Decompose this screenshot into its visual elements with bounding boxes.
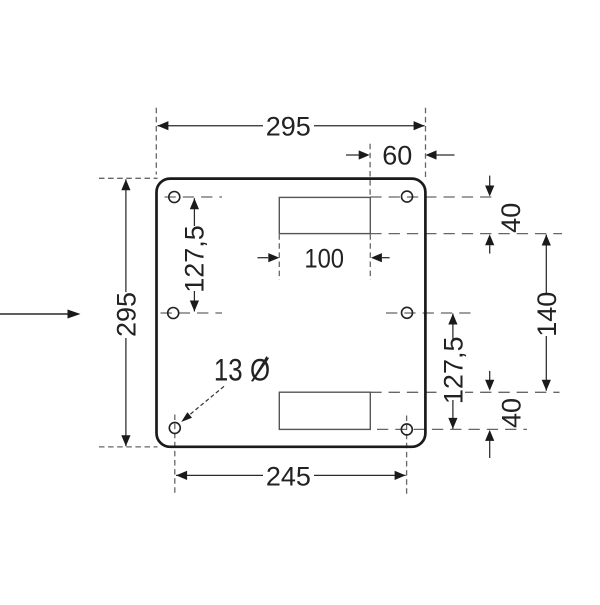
svg-text:40: 40 (496, 203, 526, 233)
svg-text:13: 13 (214, 353, 243, 388)
svg-text:60: 60 (382, 141, 412, 171)
svg-text:127,5: 127,5 (439, 337, 469, 405)
svg-text:295: 295 (266, 111, 311, 141)
svg-text:140: 140 (532, 292, 562, 337)
svg-text:127,5: 127,5 (180, 225, 210, 293)
svg-text:245: 245 (266, 461, 311, 491)
svg-text:Ø: Ø (250, 353, 270, 388)
svg-text:295: 295 (112, 292, 142, 337)
svg-text:100: 100 (304, 244, 344, 274)
svg-text:40: 40 (496, 398, 526, 428)
